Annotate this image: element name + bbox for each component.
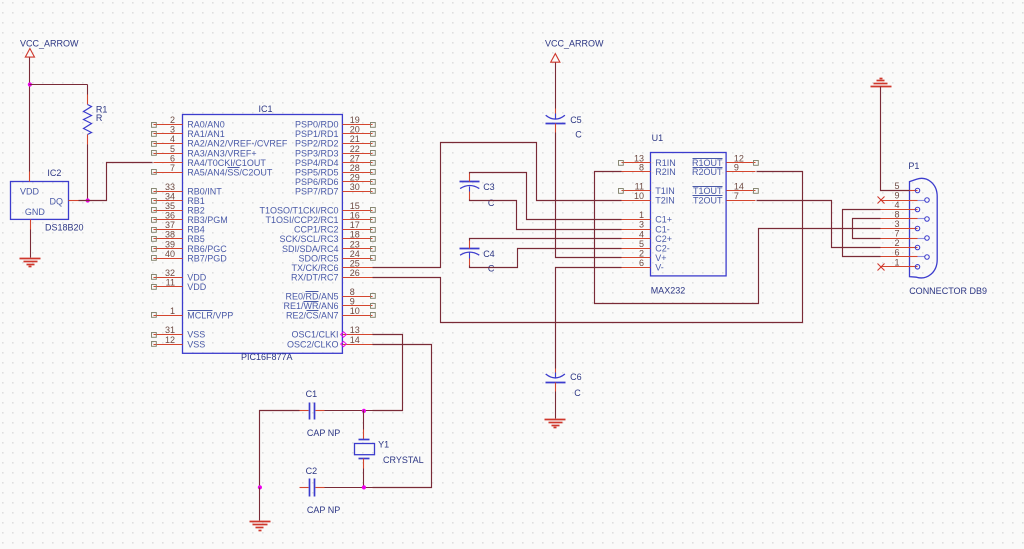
svg-text:RB4: RB4 bbox=[187, 225, 205, 235]
P1 pin 7 bbox=[894, 229, 929, 241]
svg-text:RX/DT/RC7: RX/DT/RC7 bbox=[291, 272, 339, 282]
svg-text:36: 36 bbox=[165, 211, 175, 221]
IC1 pin 38 RB5 bbox=[152, 230, 205, 245]
svg-text:5: 5 bbox=[170, 144, 175, 154]
svg-text:3: 3 bbox=[639, 220, 644, 230]
svg-text:31: 31 bbox=[165, 325, 175, 335]
P1 pin 8 bbox=[894, 210, 929, 222]
P1 pin 4 bbox=[894, 200, 919, 212]
svg-text:11: 11 bbox=[635, 181, 644, 191]
svg-text:12: 12 bbox=[165, 335, 175, 345]
IC1 pin 18 SCK/SCL/RC3 bbox=[279, 230, 375, 245]
ground below C6 bbox=[545, 419, 566, 421]
IC1 pin 9 RE1/WR/AN6 bbox=[283, 297, 375, 312]
IC1 pin 13 OSC1/CLKI bbox=[291, 325, 372, 340]
wire PIC RX/RC7 to MAX232 R2OUT bbox=[373, 172, 803, 323]
svg-text:CONNECTOR DB9: CONNECTOR DB9 bbox=[909, 286, 987, 296]
svg-text:R2OUT: R2OUT bbox=[692, 167, 723, 177]
power flag VCC_ARROW (middle) bbox=[545, 39, 604, 63]
svg-text:T2OUT: T2OUT bbox=[693, 196, 723, 206]
svg-text:RA2/AN2/VREF-/CVREF: RA2/AN2/VREF-/CVREF bbox=[187, 139, 288, 149]
svg-text:PSP2/RD2: PSP2/RD2 bbox=[295, 139, 339, 149]
svg-text:VSS: VSS bbox=[187, 339, 205, 349]
U1 pin 7 T2OUT bbox=[693, 191, 756, 206]
svg-text:30: 30 bbox=[350, 182, 360, 192]
IC1 pin 5 RA3/AN3/VREF+ bbox=[152, 144, 257, 159]
IC1 pin 3 RA1/AN1 bbox=[152, 125, 225, 140]
P1 pin 3 bbox=[894, 219, 919, 231]
IC2 pin GND bbox=[30, 220, 32, 230]
clock mark OSC1 bbox=[341, 332, 347, 337]
svg-text:DS18B20: DS18B20 bbox=[45, 223, 84, 233]
svg-text:RA1/AN1: RA1/AN1 bbox=[187, 129, 225, 139]
capacitor C1 CAP NP bbox=[300, 389, 341, 438]
svg-text:32: 32 bbox=[165, 268, 175, 278]
IC1 pin 33 RB0/INT bbox=[152, 182, 223, 197]
svg-text:VSS: VSS bbox=[187, 330, 205, 340]
IC2 pin DQ bbox=[69, 200, 79, 202]
svg-text:U1: U1 bbox=[652, 133, 664, 143]
svg-text:9: 9 bbox=[894, 191, 899, 201]
svg-text:10: 10 bbox=[634, 191, 644, 201]
svg-text:38: 38 bbox=[165, 230, 175, 240]
wire C3 top to MAX232 C1+ bbox=[470, 173, 622, 220]
svg-text:3: 3 bbox=[170, 125, 175, 135]
IC2 pin VDD bbox=[29, 172, 31, 182]
wire VCC to IC2 VDD bbox=[29, 58, 31, 172]
svg-text:7: 7 bbox=[894, 229, 899, 239]
op-amp U1 MAX232 bbox=[651, 133, 727, 296]
svg-text:33: 33 bbox=[165, 182, 175, 192]
IC1 pin 35 RB2 bbox=[152, 201, 205, 216]
svg-text:RB2: RB2 bbox=[187, 206, 205, 216]
svg-text:29: 29 bbox=[350, 172, 360, 182]
svg-text:10: 10 bbox=[350, 306, 360, 316]
svg-text:T2IN: T2IN bbox=[655, 196, 675, 206]
IC1 pin 10 RE2/CS/AN7 bbox=[286, 306, 375, 321]
svg-text:CRYSTAL: CRYSTAL bbox=[383, 455, 424, 465]
IC1 pin 22 PSP3/RD3 bbox=[295, 144, 375, 159]
wire DQ to PIC RA4 bbox=[79, 163, 153, 201]
wire MAX232 T2OUT to DB9 pin 2 bbox=[757, 201, 881, 248]
svg-text:VDD: VDD bbox=[187, 272, 207, 282]
wire VCC to C5 bbox=[555, 63, 557, 119]
IC1 pin 21 PSP2/RD2 bbox=[295, 134, 375, 149]
junction node C2/Y1/OSC2 bbox=[362, 485, 366, 489]
IC1 pin 24 SDO/RC5 bbox=[298, 249, 375, 264]
wire ground to DB9 pin 5 bbox=[881, 87, 910, 191]
svg-text:DQ: DQ bbox=[50, 196, 64, 206]
svg-text:5: 5 bbox=[894, 181, 899, 191]
svg-text:23: 23 bbox=[350, 239, 360, 249]
svg-text:RA3/AN3/VREF+: RA3/AN3/VREF+ bbox=[187, 148, 256, 158]
svg-text:5: 5 bbox=[639, 239, 644, 249]
svg-text:GND: GND bbox=[25, 207, 46, 217]
P1 pin 6 bbox=[894, 248, 929, 260]
P1 pin 1 stub (no connect) bbox=[881, 266, 910, 268]
IC1 pin 14 OSC2/CLKO bbox=[287, 335, 373, 350]
IC1 pin 1 MCLR/VPP bbox=[152, 306, 234, 321]
svg-text:PSP3/RD3: PSP3/RD3 bbox=[295, 148, 339, 158]
U1 pin 11 T1IN bbox=[619, 181, 675, 196]
wire loop DB9 pin 8 to pin 7 bbox=[853, 219, 881, 239]
capacitor C6 bbox=[546, 372, 582, 398]
svg-text:27: 27 bbox=[350, 153, 360, 163]
svg-text:RB7/PGD: RB7/PGD bbox=[187, 253, 227, 263]
svg-text:26: 26 bbox=[350, 268, 360, 278]
svg-text:RB6/PGC: RB6/PGC bbox=[187, 244, 227, 254]
svg-text:14: 14 bbox=[350, 335, 360, 345]
svg-text:P1: P1 bbox=[908, 161, 919, 171]
wire MAX232 R2IN to DB9 pin 3 bbox=[595, 172, 881, 304]
wire PIC TX/RC6 to MAX232 T2IN bbox=[373, 143, 622, 268]
svg-text:SDO/RC5: SDO/RC5 bbox=[298, 253, 338, 263]
wire PIC OSC2 to C2/Y1 bbox=[373, 345, 432, 488]
P1 pin 8 stub bbox=[881, 218, 910, 220]
svg-text:RB3/PGM: RB3/PGM bbox=[187, 215, 228, 225]
IC1 pin 2 RA0/AN0 bbox=[152, 115, 225, 130]
power flag VCC_ARROW (left) bbox=[20, 39, 79, 58]
svg-text:CCP1/RC2: CCP1/RC2 bbox=[294, 225, 339, 235]
IC1 pin 31 VSS bbox=[152, 325, 206, 340]
IC1 pin 17 CCP1/RC2 bbox=[294, 220, 375, 235]
svg-text:2: 2 bbox=[894, 238, 899, 248]
svg-text:PSP1/RD1: PSP1/RD1 bbox=[295, 129, 339, 139]
svg-text:OSC1/CLKI: OSC1/CLKI bbox=[291, 330, 338, 340]
svg-text:T1OSO/T1CKI/RC0: T1OSO/T1CKI/RC0 bbox=[259, 206, 338, 216]
IC1 pin 4 RA2/AN2/VREF-/CVREF bbox=[152, 134, 288, 149]
wire C3 bottom to MAX232 C1- bbox=[470, 200, 622, 230]
svg-text:40: 40 bbox=[165, 249, 175, 259]
svg-text:8: 8 bbox=[639, 163, 644, 173]
junction node C1/Y1/OSC1 bbox=[362, 409, 366, 413]
svg-text:RB0/INT: RB0/INT bbox=[187, 186, 222, 196]
svg-text:6: 6 bbox=[170, 153, 175, 163]
svg-text:MAX232: MAX232 bbox=[651, 286, 686, 296]
svg-text:PSP5/RD5: PSP5/RD5 bbox=[295, 167, 339, 177]
ground below C2 bbox=[250, 521, 271, 523]
U1 pin 3 C1- bbox=[622, 220, 670, 235]
IC1 pin 11 VDD bbox=[152, 277, 207, 292]
resistor R1 bbox=[84, 85, 108, 201]
no-connect X on P1 pin 9 bbox=[878, 197, 885, 204]
U1 pin 14 T1OUT bbox=[693, 181, 759, 196]
junction node DQ/R1 bbox=[86, 198, 90, 202]
wire C1 left to ground rail bbox=[260, 411, 300, 488]
ground below IC2 bbox=[20, 230, 41, 267]
U1 pin 2 V+ bbox=[622, 248, 667, 263]
svg-text:20: 20 bbox=[350, 125, 360, 135]
svg-text:37: 37 bbox=[165, 220, 175, 230]
svg-text:IC2: IC2 bbox=[47, 168, 61, 178]
U1 pin 13 R1IN bbox=[619, 154, 676, 169]
svg-text:28: 28 bbox=[350, 163, 360, 173]
svg-text:IC1: IC1 bbox=[259, 104, 273, 114]
IC1 pin 40 RB7/PGD bbox=[152, 249, 228, 264]
svg-text:T1IN: T1IN bbox=[655, 186, 675, 196]
P1 pin 2 bbox=[894, 238, 919, 250]
junction node VCC/R1 bbox=[28, 82, 32, 86]
svg-text:9: 9 bbox=[350, 297, 355, 307]
IC1 pin 7 RA5/AN4/SS/C2OUT bbox=[152, 163, 273, 178]
svg-text:34: 34 bbox=[165, 192, 175, 202]
IC2 DS18B20 bbox=[11, 168, 84, 233]
U1 pin 9 R2OUT bbox=[692, 163, 756, 178]
IC1 pin 28 PSP5/RD5 bbox=[295, 163, 375, 178]
svg-text:C2: C2 bbox=[306, 466, 318, 476]
svg-text:RB5: RB5 bbox=[187, 234, 205, 244]
svg-text:PSP7/RD7: PSP7/RD7 bbox=[295, 186, 339, 196]
svg-text:R: R bbox=[96, 113, 103, 123]
svg-text:RE0/RD/AN5: RE0/RD/AN5 bbox=[285, 292, 338, 302]
svg-text:RB1: RB1 bbox=[187, 196, 205, 206]
svg-text:1: 1 bbox=[170, 306, 175, 316]
svg-text:7: 7 bbox=[170, 163, 175, 173]
IC1 pin 19 PSP0/RD0 bbox=[295, 115, 375, 130]
capacitor C5 bbox=[546, 114, 583, 140]
P1 pin 2 stub bbox=[881, 247, 910, 249]
svg-text:19: 19 bbox=[350, 115, 360, 125]
wire C2 right to Y1/OSC2 node bbox=[325, 487, 373, 489]
P1 pin 9 bbox=[894, 191, 929, 203]
svg-text:22: 22 bbox=[350, 144, 360, 154]
svg-text:Y1: Y1 bbox=[378, 440, 389, 450]
IC1 pin 39 RB6/PGC bbox=[152, 239, 228, 254]
IC1 pin 6 RA4/T0CKI/C1OUT bbox=[154, 153, 267, 168]
IC1 pin 25 TX/CK/RC6 bbox=[291, 258, 372, 273]
svg-text:7: 7 bbox=[734, 191, 739, 201]
svg-text:PSP0/RD0: PSP0/RD0 bbox=[295, 120, 339, 130]
P1 pin 6 stub bbox=[881, 256, 910, 258]
svg-text:11: 11 bbox=[166, 277, 175, 287]
P1 pin 7 stub bbox=[881, 238, 910, 240]
svg-text:VDD: VDD bbox=[20, 187, 40, 197]
IC1 pin 32 VDD bbox=[152, 268, 207, 283]
wire C4 top to MAX232 C2+ bbox=[470, 239, 622, 241]
wire MAX232 V- to C6 bbox=[556, 268, 622, 378]
U1 pin 4 C2+ bbox=[622, 229, 673, 244]
svg-text:RA0/AN0: RA0/AN0 bbox=[187, 120, 225, 130]
svg-text:R2IN: R2IN bbox=[655, 167, 676, 177]
svg-text:C: C bbox=[575, 130, 582, 140]
svg-text:C1-: C1- bbox=[655, 224, 670, 234]
svg-text:RA4/T0CKI/C1OUT: RA4/T0CKI/C1OUT bbox=[187, 158, 266, 168]
svg-text:C3: C3 bbox=[483, 182, 495, 192]
svg-text:PSP4/RD4: PSP4/RD4 bbox=[295, 158, 339, 168]
svg-text:35: 35 bbox=[165, 201, 175, 211]
svg-text:C: C bbox=[488, 198, 495, 208]
wire C6 to ground bbox=[555, 383, 557, 419]
svg-text:9: 9 bbox=[734, 163, 739, 173]
svg-text:C5: C5 bbox=[570, 115, 582, 125]
svg-text:21: 21 bbox=[350, 134, 360, 144]
IC1 pin 36 RB3/PGM bbox=[152, 211, 228, 226]
svg-text:4: 4 bbox=[894, 200, 899, 210]
svg-text:39: 39 bbox=[165, 239, 175, 249]
U1 pin 6 V- bbox=[622, 258, 664, 273]
svg-text:RA5/AN4/SS/C2OUT: RA5/AN4/SS/C2OUT bbox=[187, 167, 273, 177]
svg-text:18: 18 bbox=[350, 230, 360, 240]
clock mark OSC2 bbox=[341, 341, 347, 346]
svg-text:C: C bbox=[488, 263, 495, 273]
svg-text:SCK/SCL/RC3: SCK/SCL/RC3 bbox=[279, 234, 338, 244]
svg-text:TX/CK/RC6: TX/CK/RC6 bbox=[291, 263, 338, 273]
IC1 pin 30 PSP7/RD7 bbox=[295, 182, 375, 197]
IC1 pin 20 PSP1/RD1 bbox=[295, 125, 375, 140]
P1 pin 9 stub (no connect) bbox=[881, 200, 910, 202]
svg-text:15: 15 bbox=[350, 201, 360, 211]
overline MCLR bbox=[188, 310, 213, 312]
svg-text:VCC_ARROW: VCC_ARROW bbox=[20, 39, 79, 49]
wire loop DB9 pin 4 to pin 6 bbox=[843, 210, 881, 257]
capacitor C4 bbox=[460, 241, 495, 274]
IC1 pin 8 RE0/RD/AN5 bbox=[285, 287, 375, 302]
U1 pin 1 C1+ bbox=[622, 210, 673, 225]
IC1 pin 26 RX/DT/RC7 bbox=[291, 268, 373, 283]
svg-text:VCC_ARROW: VCC_ARROW bbox=[545, 39, 604, 49]
IC1 pin 16 T1OSI/CCP2/RC1 bbox=[265, 211, 375, 226]
P1 pin 5 stub bbox=[881, 190, 910, 192]
svg-text:RE1/WR/AN6: RE1/WR/AN6 bbox=[283, 301, 338, 311]
wire VCC junction to R1 top bbox=[30, 84, 88, 86]
svg-text:RE2/CS/AN7: RE2/CS/AN7 bbox=[286, 311, 339, 321]
svg-text:V+: V+ bbox=[655, 253, 666, 263]
IC1 pin 15 T1OSO/T1CKI/RC0 bbox=[259, 201, 375, 216]
IC1 pin 37 RB4 bbox=[152, 220, 205, 235]
IC1 pin 12 VSS bbox=[152, 335, 206, 350]
svg-text:T1OSI/CCP2/RC1: T1OSI/CCP2/RC1 bbox=[265, 215, 338, 225]
svg-text:16: 16 bbox=[350, 211, 360, 221]
wire C4 bottom to MAX232 C2- bbox=[470, 249, 622, 268]
svg-text:8: 8 bbox=[350, 287, 355, 297]
wire C1 right to Y1/OSC1 node bbox=[325, 410, 373, 412]
svg-text:CAP NP: CAP NP bbox=[307, 505, 340, 515]
svg-text:CAP NP: CAP NP bbox=[307, 428, 340, 438]
ground above DB9 pin 5 bbox=[871, 86, 892, 88]
svg-text:24: 24 bbox=[350, 249, 360, 259]
U1 pin 12 R1OUT bbox=[692, 154, 758, 169]
svg-text:17: 17 bbox=[350, 220, 360, 230]
svg-text:T1OUT: T1OUT bbox=[693, 186, 723, 196]
svg-text:C: C bbox=[574, 388, 581, 398]
capacitor C3 bbox=[460, 174, 495, 208]
IC1 pin 29 PSP6/RD6 bbox=[295, 172, 375, 187]
svg-text:C2-: C2- bbox=[655, 243, 670, 253]
junction node C2/ground rail bbox=[258, 485, 262, 489]
capacitor C2 CAP NP bbox=[300, 466, 341, 515]
svg-text:2: 2 bbox=[170, 115, 175, 125]
wire C2 left to ground bbox=[259, 488, 261, 521]
connector P1 DB9 bbox=[908, 161, 987, 296]
U1 pin 5 C2- bbox=[622, 239, 670, 254]
wire PIC OSC1 to C1/Y1 bbox=[373, 335, 403, 411]
svg-text:25: 25 bbox=[350, 258, 360, 268]
P1 pin 1 bbox=[894, 258, 919, 270]
svg-text:C6: C6 bbox=[570, 372, 582, 382]
crystal Y1 bbox=[355, 411, 424, 488]
svg-text:13: 13 bbox=[350, 325, 360, 335]
IC1 pin 23 SDI/SDA/RC4 bbox=[282, 239, 375, 254]
svg-text:VDD: VDD bbox=[187, 282, 207, 292]
svg-text:C1: C1 bbox=[306, 389, 318, 399]
svg-text:14: 14 bbox=[734, 181, 744, 191]
P1 pin 4 stub bbox=[881, 209, 910, 211]
svg-text:MCLR/VPP: MCLR/VPP bbox=[187, 311, 233, 321]
IC1 pin 27 PSP4/RD4 bbox=[295, 153, 375, 168]
svg-text:3: 3 bbox=[894, 219, 899, 229]
no-connect X on P1 pin 1 bbox=[878, 264, 885, 271]
IC1 pin 34 RB1 bbox=[152, 192, 205, 207]
overline SS bbox=[228, 167, 240, 169]
P1 pin 3 stub bbox=[881, 228, 910, 230]
svg-text:PIC16F877A: PIC16F877A bbox=[241, 352, 293, 362]
wire C5 to MAX232 V+ bbox=[556, 124, 622, 258]
svg-text:4: 4 bbox=[170, 134, 175, 144]
svg-text:PSP6/RD6: PSP6/RD6 bbox=[295, 177, 339, 187]
svg-text:OSC2/CLKO: OSC2/CLKO bbox=[287, 339, 339, 349]
svg-text:2: 2 bbox=[639, 248, 644, 258]
svg-text:V-: V- bbox=[655, 263, 664, 273]
U1 pin 8 R2IN bbox=[622, 163, 676, 178]
P1 pin 5 bbox=[894, 181, 919, 193]
svg-text:6: 6 bbox=[639, 258, 644, 268]
svg-text:C4: C4 bbox=[483, 249, 495, 259]
IC1 PIC16F877A microcontroller bbox=[183, 104, 343, 362]
svg-text:SDI/SDA/RC4: SDI/SDA/RC4 bbox=[282, 244, 339, 254]
svg-text:1: 1 bbox=[639, 210, 644, 220]
svg-text:C1+: C1+ bbox=[655, 215, 672, 225]
U1 pin 10 T2IN bbox=[622, 191, 675, 206]
